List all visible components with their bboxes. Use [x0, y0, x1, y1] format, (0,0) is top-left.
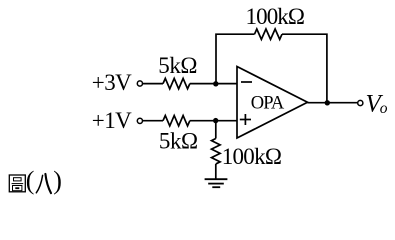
- svg-text:(: (: [26, 166, 35, 195]
- svg-text:100kΩ: 100kΩ: [246, 4, 306, 29]
- svg-text:o: o: [380, 100, 388, 117]
- svg-text:OPA: OPA: [251, 94, 285, 114]
- svg-text:+1V: +1V: [92, 108, 132, 133]
- svg-text:+3V: +3V: [92, 70, 132, 95]
- svg-text:5kΩ: 5kΩ: [159, 128, 198, 153]
- svg-text:100kΩ: 100kΩ: [222, 144, 282, 169]
- svg-text:): ): [53, 166, 62, 195]
- svg-text:5kΩ: 5kΩ: [158, 53, 197, 78]
